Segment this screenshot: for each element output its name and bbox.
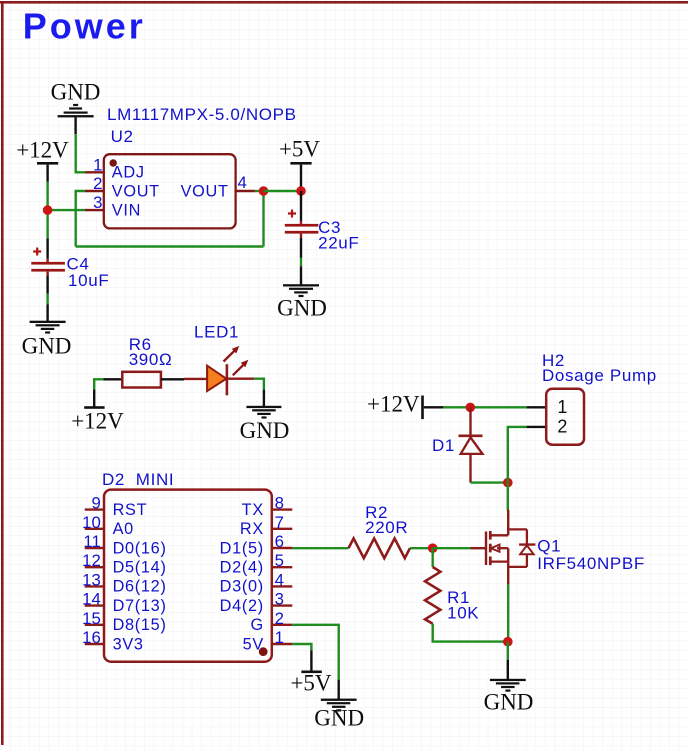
- ground (module): [314, 680, 364, 731]
- D2 pin 5 stub: [272, 566, 293, 568]
- svg-text:Power: Power: [23, 6, 146, 47]
- D2 pin 9 stub: [85, 508, 104, 510]
- power port +5V: [279, 137, 320, 187]
- ground below C3: [277, 266, 327, 320]
- U2 pin 2 stub: [85, 190, 104, 192]
- D2 pin 10 stub: [85, 528, 104, 530]
- resistor R6: [103, 372, 184, 388]
- Q1 body diode: [526, 529, 528, 544]
- svg-text:220R: 220R: [365, 518, 408, 537]
- wire junction to Q1 gate: [433, 547, 471, 549]
- svg-text:15: 15: [82, 609, 101, 628]
- capacitor C3: [285, 191, 319, 258]
- svg-text:LED1: LED1: [194, 323, 239, 342]
- connector H2: [527, 389, 584, 445]
- svg-text:GND: GND: [277, 296, 327, 321]
- wire +12V to H2 pin1: [443, 406, 526, 408]
- svg-text:7: 7: [275, 513, 284, 532]
- svg-text:2: 2: [557, 417, 567, 437]
- svg-text:+12V: +12V: [71, 409, 124, 434]
- junction D1/H2 pin2/Q1 drain: [503, 478, 513, 488]
- U2 pin 4 stub: [236, 190, 255, 192]
- svg-text:D2 MINI: D2 MINI: [102, 470, 174, 489]
- ground (Q1 source): [484, 660, 534, 715]
- svg-text:VOUT: VOUT: [181, 182, 229, 200]
- wire junction to R1: [432, 548, 434, 567]
- svg-text:D6(12): D6(12): [113, 578, 167, 596]
- wire LED to GND: [254, 379, 264, 390]
- svg-text:D5(14): D5(14): [113, 559, 167, 577]
- wire C3 to GND: [300, 258, 302, 267]
- U2 pin 3 stub: [85, 209, 104, 211]
- svg-text:+12V: +12V: [367, 392, 420, 417]
- svg-text:2: 2: [93, 174, 102, 193]
- wire module pin6 to R2: [292, 547, 348, 549]
- D2 pin 11 stub: [85, 547, 104, 549]
- svg-text:A0: A0: [113, 520, 134, 538]
- wire junction to Q1 drain: [507, 483, 509, 511]
- svg-text:10: 10: [82, 513, 101, 532]
- capacitor C4: [31, 238, 65, 293]
- D2 pin 14 stub: [85, 604, 104, 606]
- wire GND to U2 pin1 ADJ: [76, 134, 86, 172]
- svg-text:D1: D1: [432, 436, 455, 455]
- junction VOUT loop: [259, 186, 269, 196]
- svg-text:+5V: +5V: [279, 137, 320, 162]
- D2 pin 2 stub: [272, 624, 293, 626]
- svg-text:RST: RST: [113, 501, 148, 519]
- svg-text:RX: RX: [240, 520, 264, 538]
- svg-text:GND: GND: [240, 418, 290, 443]
- svg-text:U2: U2: [111, 127, 134, 146]
- junction source/R1/GND: [503, 637, 513, 647]
- svg-text:D0(16): D0(16): [113, 539, 167, 557]
- svg-text:10uF: 10uF: [68, 271, 109, 290]
- D2 pin 16 stub: [85, 643, 104, 645]
- svg-text:ADJ: ADJ: [112, 164, 145, 182]
- svg-text:13: 13: [82, 570, 101, 589]
- power port +12V (left rail): [16, 138, 69, 182]
- svg-text:D7(13): D7(13): [113, 597, 167, 615]
- D2 pin 8 stub: [272, 508, 293, 510]
- svg-text:3V3: 3V3: [113, 635, 144, 653]
- wire H2 pin2 down: [508, 427, 527, 483]
- svg-text:22uF: 22uF: [318, 234, 359, 253]
- wire +12V to R6: [94, 379, 103, 389]
- LED arrow 2: [233, 364, 244, 375]
- frame border top: [0, 1, 688, 4]
- svg-text:5: 5: [275, 551, 284, 570]
- D2 pin 15 stub: [85, 624, 104, 626]
- wire to pin2 VOUT loop vertical: [76, 191, 86, 247]
- wire +12V to pin3 VIN: [48, 209, 86, 211]
- svg-text:3: 3: [275, 590, 284, 609]
- wire VOUT loop right vertical: [262, 191, 264, 247]
- svg-text:Q1: Q1: [537, 537, 561, 556]
- D2 pin 4 stub: [272, 585, 293, 587]
- ground below C4: [22, 304, 72, 358]
- svg-text:+5V: +5V: [290, 671, 331, 696]
- wire +12V rail down: [46, 182, 48, 239]
- svg-text:+12V: +12V: [16, 138, 69, 163]
- svg-text:LM1117MPX-5.0/NOPB: LM1117MPX-5.0/NOPB: [107, 105, 297, 124]
- svg-text:D4(2): D4(2): [220, 597, 264, 615]
- junction +5V/C3: [296, 186, 306, 196]
- ground (LED): [240, 390, 290, 443]
- resistor R1: [425, 567, 440, 624]
- svg-text:TX: TX: [242, 501, 264, 519]
- wire junction to GND: [507, 642, 509, 660]
- module D2 MINI body: [104, 490, 272, 662]
- transistor Q1 IRF540: [471, 510, 536, 585]
- svg-text:9: 9: [91, 494, 100, 513]
- svg-text:12: 12: [82, 551, 101, 570]
- wire VOUT loop bottom: [76, 245, 264, 247]
- svg-text:IRF540NPBF: IRF540NPBF: [537, 554, 645, 573]
- svg-text:16: 16: [82, 628, 101, 647]
- svg-text:Dosage Pump: Dosage Pump: [542, 366, 657, 385]
- LED LED1: [184, 346, 254, 395]
- op-amp U2 body LM1117: [104, 154, 236, 228]
- svg-text:D8(15): D8(15): [113, 616, 167, 634]
- svg-text:G: G: [251, 616, 264, 634]
- svg-text:GND: GND: [484, 690, 534, 715]
- junction gate/R1: [428, 543, 438, 553]
- power port +12V (pump): [367, 392, 443, 420]
- wire R1 to source node: [433, 624, 508, 642]
- svg-text:D1(5): D1(5): [220, 539, 264, 557]
- wire Q1 source down: [507, 584, 509, 641]
- resistor R2: [349, 538, 410, 558]
- svg-text:D3(0): D3(0): [220, 578, 264, 596]
- svg-text:6: 6: [275, 532, 284, 551]
- svg-text:1: 1: [93, 155, 102, 174]
- wire R2 to junction: [410, 547, 433, 549]
- svg-text:2: 2: [275, 609, 284, 628]
- D2 pin 6 stub: [272, 547, 293, 549]
- power port +5V (module): [290, 651, 331, 696]
- svg-text:14: 14: [82, 590, 101, 609]
- svg-text:GND: GND: [51, 80, 101, 105]
- D2 pin 7 stub: [272, 528, 293, 530]
- wire C4 to GND: [46, 294, 48, 305]
- svg-text:GND: GND: [22, 334, 72, 359]
- D2 pin 1 stub: [272, 643, 293, 645]
- wire pin2 G to GND: [292, 625, 338, 680]
- wire junction to +5V column: [264, 190, 302, 192]
- D2 pin 3 stub: [272, 604, 293, 606]
- power port +12V (LED): [71, 389, 124, 433]
- svg-text:GND: GND: [314, 706, 364, 731]
- ground GND (above U2): [51, 80, 101, 135]
- svg-text:1: 1: [275, 628, 284, 647]
- D2 pin 12 stub: [85, 566, 104, 568]
- svg-text:VOUT: VOUT: [112, 182, 160, 200]
- svg-text:D2(4): D2(4): [220, 559, 264, 577]
- svg-text:390Ω: 390Ω: [129, 350, 173, 369]
- svg-text:8: 8: [275, 494, 284, 513]
- wire D1 anode to junction: [471, 481, 508, 483]
- junction +12V/VIN: [43, 205, 53, 215]
- svg-text:3: 3: [93, 193, 102, 212]
- D2 pin 13 stub: [85, 585, 104, 587]
- svg-text:1: 1: [557, 397, 567, 417]
- LED arrow 1: [224, 350, 236, 361]
- diode D1: [459, 407, 483, 482]
- junction +12V/D1: [466, 403, 476, 413]
- wire pin4 to junction: [255, 190, 264, 192]
- wire pin1 5V to +5V port: [292, 644, 311, 651]
- svg-text:11: 11: [83, 532, 100, 551]
- svg-text:10K: 10K: [447, 604, 479, 623]
- frame border left: [1, 1, 4, 745]
- svg-text:5V: 5V: [243, 635, 264, 653]
- svg-text:VIN: VIN: [112, 201, 141, 219]
- U2 pin 1 stub: [85, 171, 104, 173]
- svg-text:4: 4: [238, 173, 247, 192]
- svg-text:4: 4: [275, 570, 284, 589]
